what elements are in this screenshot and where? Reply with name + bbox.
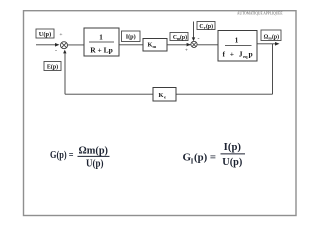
svg-text:+: + bbox=[59, 32, 62, 38]
svg-text:1: 1 bbox=[99, 33, 103, 42]
wire Cr(p) arrow down into summer S2 bbox=[192, 22, 195, 42]
page frame border bbox=[24, 11, 297, 216]
svg-text:(p): (p) bbox=[272, 33, 279, 40]
svg-text:-: - bbox=[198, 36, 200, 42]
node Cr(p) label box bbox=[197, 22, 215, 31]
wire input arrow into summer S1 bbox=[36, 43, 60, 47]
formula G(p) equals Omega_m(p) over U(p) bbox=[50, 145, 110, 169]
wire S2 to block B3 bbox=[197, 44, 218, 46]
wire feedback riser up into summer S1 bbox=[63, 50, 66, 95]
wire B1 to block B2 Km bbox=[119, 44, 143, 46]
wire Ke to left riser bbox=[65, 93, 153, 95]
svg-text:U(p): U(p) bbox=[222, 157, 242, 168]
node Omega_m(p) label box bbox=[261, 30, 281, 41]
svg-text:U(p): U(p) bbox=[86, 159, 104, 170]
svg-text:e: e bbox=[164, 94, 166, 99]
header text top right bbox=[237, 11, 283, 16]
wire feedback horizontal to Ke bbox=[176, 93, 273, 95]
svg-text:-: - bbox=[55, 48, 57, 54]
svg-text:p: p bbox=[249, 50, 253, 59]
wire S1 to block B1 bbox=[67, 44, 84, 46]
summing junction S2 bbox=[191, 41, 197, 47]
svg-text:(p) =: (p) = bbox=[194, 152, 216, 164]
svg-text:1: 1 bbox=[235, 36, 239, 45]
wire arrowhead into summer S2 from left bbox=[187, 43, 191, 47]
wire feedback tap down from output bbox=[272, 44, 274, 94]
svg-text:eq: eq bbox=[243, 54, 248, 59]
svg-text:+: + bbox=[185, 47, 188, 53]
formula GI(p) equals I(p) over U(p) bbox=[183, 142, 246, 168]
svg-text:E(p): E(p) bbox=[47, 64, 58, 71]
svg-text:I(p): I(p) bbox=[224, 142, 242, 153]
svg-text:(p): (p) bbox=[206, 23, 213, 30]
summing junction S1 bbox=[61, 42, 68, 49]
block B3 transfer function 1/(f+Jeq p) bbox=[218, 31, 257, 62]
wire output arrow from B3 bbox=[257, 42, 280, 46]
node U(p) label box bbox=[36, 29, 54, 38]
node I(p) label box bbox=[122, 31, 141, 42]
svg-text:R + Lp: R + Lp bbox=[90, 46, 113, 55]
svg-text:I(p): I(p) bbox=[126, 34, 136, 41]
svg-text:f + J: f + J bbox=[223, 50, 243, 59]
plus sign at summer S2 bbox=[185, 47, 188, 53]
wire Km to summer S2 bbox=[167, 44, 191, 46]
svg-text:m: m bbox=[152, 44, 156, 49]
block B2 gain Km bbox=[143, 39, 167, 52]
block B1 transfer function 1/(R+Lp) bbox=[84, 28, 119, 56]
svg-text:(p): (p) bbox=[180, 34, 187, 41]
minus sign at summer S2 bbox=[198, 36, 200, 42]
plus sign at summer S1 bbox=[59, 32, 62, 38]
svg-text:Ωm(p): Ωm(p) bbox=[79, 145, 109, 156]
node E(p) label box bbox=[44, 62, 61, 71]
block B4 gain Ke bbox=[153, 88, 176, 102]
svg-text:U(p): U(p) bbox=[39, 31, 51, 38]
svg-text:K: K bbox=[159, 92, 164, 99]
minus sign at summer S1 bbox=[55, 48, 57, 54]
svg-text:AUTOMATIQUE APPLIQUEE: AUTOMATIQUE APPLIQUEE bbox=[237, 11, 283, 16]
svg-text:G(p) =: G(p) = bbox=[50, 150, 74, 161]
node Cm(p) label box bbox=[170, 33, 188, 42]
